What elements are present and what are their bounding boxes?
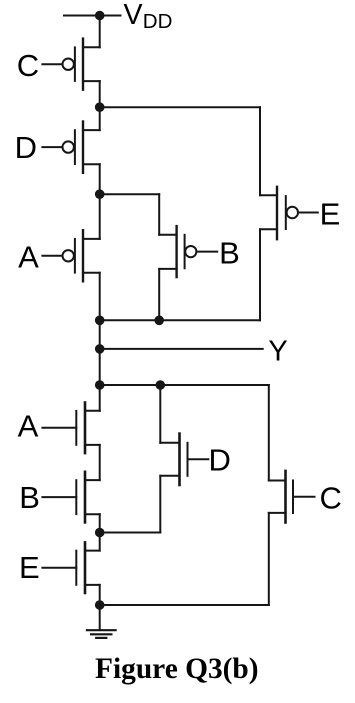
node pull-up bus left dot <box>95 316 105 326</box>
svg-text:B: B <box>19 480 40 515</box>
wire pull-up output bus <box>100 319 260 321</box>
node ground bus dot <box>95 600 105 610</box>
transistor E PMOS (pull-up, mirrored) <box>260 187 318 239</box>
transistor A NMOS (pull-down) <box>42 403 99 454</box>
wire A drain down <box>99 273 101 321</box>
wire ground bus <box>100 604 269 606</box>
svg-text:Figure Q3(b): Figure Q3(b) <box>95 653 259 685</box>
transistor D PMOS (pull-up) <box>42 122 99 173</box>
wire VDD to C source <box>99 16 101 48</box>
transistor D NMOS (pull-down, mirrored) <box>160 434 208 485</box>
svg-text:A: A <box>18 240 39 275</box>
svg-text:A: A <box>18 409 39 444</box>
svg-text:B: B <box>219 236 240 271</box>
wire B branch drop <box>158 194 160 235</box>
wire VDD rail top <box>64 15 121 17</box>
wire E drain to output rail <box>259 229 261 320</box>
wire pull-down top bus <box>100 384 269 386</box>
wire E source to ground node <box>99 585 101 605</box>
node node5 dot <box>95 528 105 538</box>
wire B source to node5 <box>99 514 101 532</box>
wire node1 horizontal to E branch <box>100 106 260 108</box>
wire node5 horizontal <box>100 532 161 534</box>
wire D branch drop <box>159 385 161 443</box>
wire C branch drop <box>268 385 270 481</box>
node node2 dot <box>95 189 105 199</box>
wire bus to Y node <box>99 320 101 349</box>
svg-text:C: C <box>17 48 39 83</box>
transistor C PMOS (pull-up) <box>42 39 99 90</box>
node pull-down bus left dot <box>95 380 105 390</box>
transistor C NMOS (pull-down, mirrored) <box>269 471 315 523</box>
svg-text:V: V <box>124 0 143 31</box>
transistor B NMOS (pull-down) <box>42 472 99 523</box>
transistor A PMOS (pull-up) <box>42 230 99 281</box>
wire output Y <box>100 348 263 350</box>
node Y dot <box>95 344 105 354</box>
wire E branch drop to E source <box>259 107 261 195</box>
wire Y to pull-down bus <box>99 349 101 385</box>
svg-text:D: D <box>209 442 231 477</box>
ground <box>87 605 116 638</box>
wire node5 to E drain <box>99 533 101 551</box>
wire bus to A NMOS <box>99 385 101 411</box>
svg-text:D: D <box>15 130 37 165</box>
wire C drain to node1 <box>99 81 101 107</box>
wire node1 to D source <box>99 107 101 130</box>
wire D source to node5 bus <box>159 476 161 533</box>
svg-text:Y: Y <box>268 336 287 368</box>
transistor E NMOS (pull-down) <box>42 542 99 593</box>
wire A source to B drain <box>99 445 101 480</box>
node node1 dot <box>95 102 105 112</box>
svg-text:DD: DD <box>143 10 173 33</box>
wire C source to ground bus <box>268 513 270 605</box>
svg-text:E: E <box>320 196 341 231</box>
wire node2 to A source <box>99 194 101 239</box>
wire B source to output rail <box>158 269 160 320</box>
node pull-up bus B dot <box>154 316 164 326</box>
svg-text:E: E <box>19 550 40 585</box>
wire D drain to node2 <box>99 164 101 194</box>
node VDD junction dot <box>95 11 105 21</box>
transistor B PMOS (pull-up, mirrored) <box>159 226 217 277</box>
wire node2 horizontal to B branch <box>100 193 160 195</box>
svg-text:C: C <box>320 480 342 515</box>
node pull-down bus D dot <box>156 380 166 390</box>
